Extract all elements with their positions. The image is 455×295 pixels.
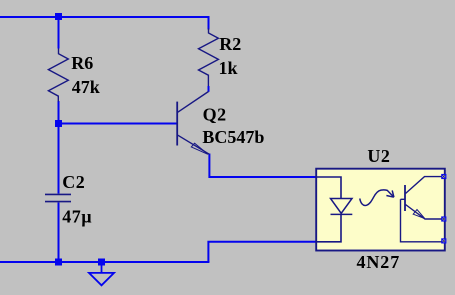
wire base: middle node to Q2 base xyxy=(59,123,177,125)
U2 pin 5 (top right) xyxy=(441,174,446,179)
optocoupler U2 body xyxy=(316,169,445,251)
wire R2 drop from top rail xyxy=(208,17,210,30)
svg-text:R6: R6 xyxy=(71,53,93,73)
wire riser from bottom rail to U2 lower pin xyxy=(208,242,315,262)
U2 LED cathode lead xyxy=(317,214,341,241)
svg-text:BC547b: BC547b xyxy=(202,127,264,147)
U2 pin 6 (bottom right) xyxy=(441,238,446,243)
node junction bottom (C2/bottom rail) xyxy=(55,259,62,266)
wire C2 bottom lead xyxy=(58,203,60,263)
U2 LED anode lead xyxy=(317,177,341,199)
svg-text:R2: R2 xyxy=(219,34,241,54)
capacitor C2 xyxy=(45,194,71,201)
U2 light coupling arrow xyxy=(360,190,394,206)
svg-text:U2: U2 xyxy=(367,146,390,166)
wire R6 drop from top rail xyxy=(58,17,60,49)
svg-text:4N27: 4N27 xyxy=(357,252,401,272)
svg-text:47µ: 47µ xyxy=(62,207,92,227)
U2 pin 4 (middle right) xyxy=(441,216,446,221)
resistor R2 xyxy=(199,29,219,87)
transistor Q2 xyxy=(177,92,209,155)
wire top rail xyxy=(0,16,210,18)
ground xyxy=(89,264,114,285)
svg-text:Q2: Q2 xyxy=(203,105,227,125)
node junction middle (R6/C2/base) xyxy=(55,120,62,127)
resistor R6 xyxy=(48,49,68,102)
svg-text:47k: 47k xyxy=(72,77,100,97)
wire Q2 emitter to U2 upper pin xyxy=(209,154,315,178)
wire bottom rail xyxy=(0,261,209,263)
node junction top (R6/top rail) xyxy=(55,13,62,20)
wire R2 bottom to Q2 collector xyxy=(208,86,210,92)
svg-text:C2: C2 xyxy=(62,172,85,192)
wire C2 top lead xyxy=(58,124,60,194)
wire R6 bottom to middle node xyxy=(58,101,60,124)
U2 LED diode D xyxy=(331,199,353,215)
U2 phototransistor xyxy=(401,177,444,242)
svg-text:1k: 1k xyxy=(219,58,238,78)
node junction ground xyxy=(98,259,105,266)
